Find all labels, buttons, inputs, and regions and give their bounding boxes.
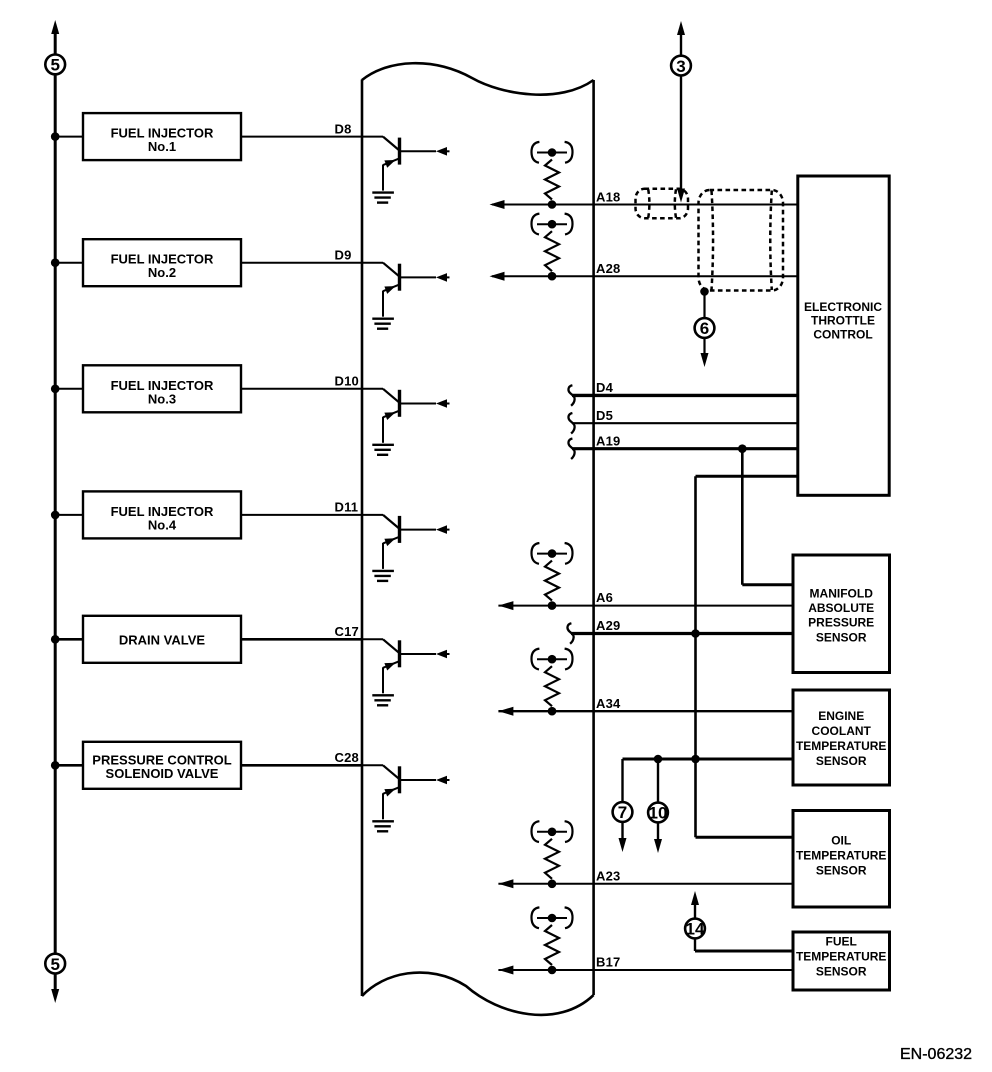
svg-text:A19: A19: [596, 433, 620, 448]
svg-text:5: 5: [50, 56, 59, 75]
svg-text:FUEL: FUEL: [826, 935, 857, 949]
svg-text:10: 10: [649, 804, 668, 823]
svg-text:ENGINE: ENGINE: [818, 709, 864, 723]
svg-text:D10: D10: [335, 374, 359, 389]
svg-text:TEMPERATURE: TEMPERATURE: [796, 849, 886, 863]
svg-text:D4: D4: [596, 380, 614, 395]
svg-text:TEMPERATURE: TEMPERATURE: [796, 950, 886, 964]
svg-text:THROTTLE: THROTTLE: [811, 314, 875, 328]
svg-text:COOLANT: COOLANT: [812, 724, 872, 738]
svg-text:TEMPERATURE: TEMPERATURE: [796, 739, 886, 753]
svg-text:No.1: No.1: [148, 139, 176, 154]
svg-text:No.4: No.4: [148, 517, 177, 532]
svg-text:D9: D9: [335, 247, 352, 262]
svg-text:B17: B17: [596, 955, 620, 970]
svg-text:3: 3: [676, 57, 685, 76]
svg-text:D11: D11: [335, 500, 359, 515]
svg-text:SENSOR: SENSOR: [816, 630, 867, 644]
svg-text:D5: D5: [596, 408, 613, 423]
svg-text:SENSOR: SENSOR: [816, 965, 867, 979]
svg-text:A6: A6: [596, 590, 613, 605]
svg-text:A23: A23: [596, 868, 620, 883]
svg-text:OIL: OIL: [831, 834, 851, 848]
svg-text:A18: A18: [596, 189, 620, 204]
svg-text:ELECTRONIC: ELECTRONIC: [804, 300, 882, 314]
svg-text:A34: A34: [596, 696, 621, 711]
svg-text:EN-06232: EN-06232: [900, 1046, 972, 1063]
svg-text:A28: A28: [596, 261, 620, 276]
svg-text:SENSOR: SENSOR: [816, 754, 867, 768]
svg-text:5: 5: [50, 955, 59, 974]
svg-text:14: 14: [686, 920, 705, 939]
svg-text:SENSOR: SENSOR: [816, 864, 867, 878]
svg-text:D8: D8: [335, 121, 352, 136]
svg-text:ABSOLUTE: ABSOLUTE: [808, 601, 874, 615]
svg-text:7: 7: [618, 803, 627, 822]
svg-text:PRESSURE: PRESSURE: [808, 616, 874, 630]
svg-text:CONTROL: CONTROL: [813, 327, 872, 341]
svg-text:No.2: No.2: [148, 265, 176, 280]
svg-text:A29: A29: [596, 618, 620, 633]
svg-text:6: 6: [700, 319, 709, 338]
svg-text:No.3: No.3: [148, 391, 176, 406]
svg-text:C28: C28: [335, 750, 359, 765]
svg-text:DRAIN VALVE: DRAIN VALVE: [119, 632, 206, 647]
svg-text:SOLENOID VALVE: SOLENOID VALVE: [106, 766, 219, 781]
svg-text:C17: C17: [335, 624, 359, 639]
svg-text:MANIFOLD: MANIFOLD: [810, 587, 874, 601]
